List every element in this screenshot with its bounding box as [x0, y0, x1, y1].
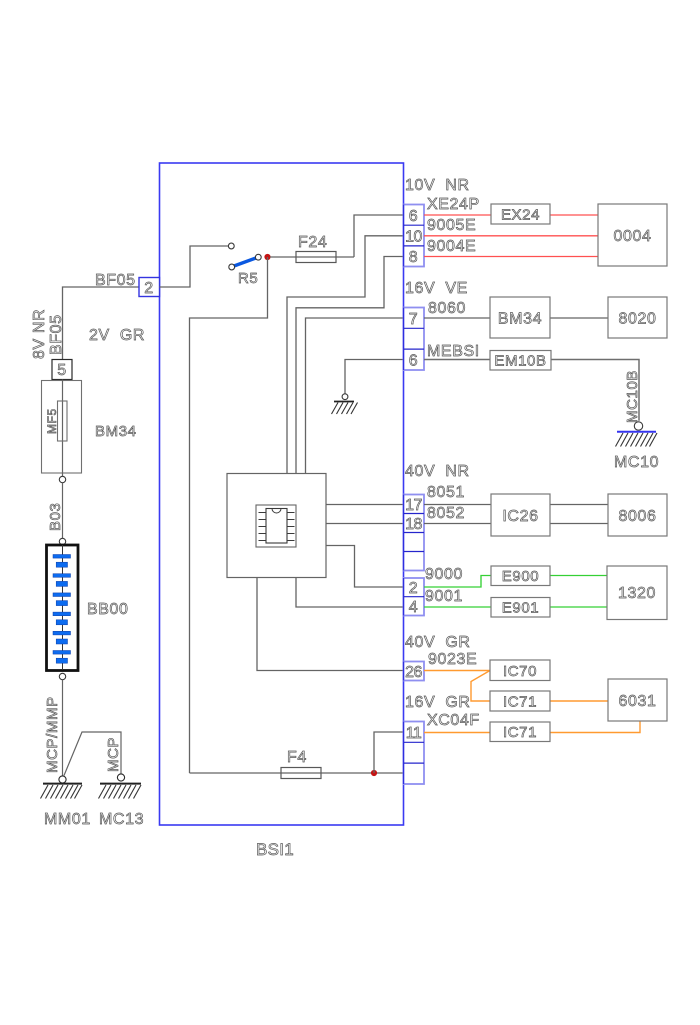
wire green E900 to 1320 [550, 575, 607, 577]
wire chip to pin 18 [326, 523, 405, 525]
svg-text:9023E: 9023E [428, 651, 477, 668]
wire chip to pin 2 (9000) [326, 546, 405, 588]
component 8020 [608, 297, 667, 338]
ground MC13 [99, 774, 142, 799]
wire F4 line [190, 772, 406, 774]
wire through BM34 [62, 380, 64, 477]
svg-text:7: 7 [409, 311, 419, 328]
wire R5 to F24 to pin 6 [270, 215, 405, 257]
wire pin17 to IC26 [424, 504, 491, 506]
svg-text:8052: 8052 [427, 505, 465, 522]
connector IC71 (lower) [490, 722, 550, 742]
svg-text:9005E: 9005E [427, 217, 476, 234]
wire pin2 to switch R5 [160, 246, 229, 287]
wire pin 7 to chip [306, 318, 406, 474]
label MCP (vertical) [105, 737, 122, 772]
connector EM10B [490, 351, 551, 371]
wire orange pin26 to IC70 and branch to IC71 [424, 671, 490, 702]
connector EX24 [491, 204, 550, 224]
wire BM34 to 8020 [550, 317, 608, 319]
svg-text:EX24: EX24 [501, 207, 540, 224]
wire MCP/MMP battery to ground [62, 680, 64, 776]
wire MCP branch to MC13 [64, 732, 121, 776]
svg-text:MC10B: MC10B [624, 370, 641, 423]
svg-text:8020: 8020 [619, 311, 657, 328]
ground MM01 [41, 776, 83, 799]
wire green pin4 to E901 [424, 606, 491, 608]
svg-text:IC71: IC71 [503, 694, 537, 711]
svg-text:6: 6 [409, 353, 419, 370]
connector IC70 [490, 660, 550, 681]
svg-text:2: 2 [409, 580, 419, 597]
svg-text:MF5: MF5 [45, 408, 59, 434]
svg-text:9004E: 9004E [427, 238, 476, 255]
component 0004 [598, 204, 667, 266]
svg-text:16V VE: 16V VE [405, 280, 468, 297]
svg-text:BM34: BM34 [95, 423, 137, 440]
wire junction to pin 11 [374, 732, 405, 773]
svg-text:E900: E900 [502, 568, 539, 585]
wire IC26 to 8006 (upper) [550, 504, 608, 506]
svg-text:XE24P: XE24P [427, 196, 480, 213]
wire red pin10 to 0004 [424, 235, 598, 237]
battery BB00 [47, 545, 79, 671]
svg-text:0004: 0004 [614, 228, 652, 245]
svg-text:40V NR: 40V NR [405, 463, 470, 480]
svg-text:F24: F24 [298, 234, 327, 251]
svg-text:8060: 8060 [428, 300, 466, 317]
connector E900 [491, 566, 550, 586]
wire pin 10 to chip [287, 236, 405, 474]
svg-text:4: 4 [409, 599, 419, 616]
wire green pin2 to E900 [424, 576, 491, 588]
pin strip 6/10/8 [404, 205, 425, 267]
svg-text:17: 17 [405, 497, 422, 514]
component 6031 [608, 679, 667, 721]
pin strip 17/18/empty/empty [404, 495, 425, 571]
connector node circle below battery [59, 673, 65, 679]
fuse F24 [296, 252, 336, 263]
svg-text:8051: 8051 [427, 484, 465, 501]
svg-text:MCP/MMP: MCP/MMP [44, 696, 61, 773]
svg-text:BSI1: BSI1 [256, 840, 294, 859]
svg-text:18: 18 [405, 516, 422, 533]
svg-text:EM10B: EM10B [494, 353, 546, 370]
wire pin18 to IC26 [424, 523, 491, 525]
svg-text:8V NR: 8V NR [31, 309, 48, 359]
pin 5 connector of BM34 [52, 360, 72, 380]
svg-text:11: 11 [406, 725, 422, 742]
svg-text:2: 2 [144, 280, 154, 297]
wire pin6 MEBSI to EM10B and MC10 [424, 360, 639, 421]
wire chip to pin 26 [257, 578, 405, 671]
pin 26 [404, 662, 425, 682]
wire red pin8 to 0004 [424, 256, 598, 258]
connector E901 [491, 598, 550, 618]
svg-text:10V NR: 10V NR [405, 177, 470, 194]
label MCP/MMP (vertical) [44, 696, 61, 773]
pin strip 7/-/6 [404, 308, 425, 371]
switch R5 [228, 243, 261, 270]
svg-text:16V GR: 16V GR [405, 694, 471, 711]
svg-text:MC10: MC10 [614, 454, 659, 471]
wire green E901 to 1320 [550, 606, 607, 608]
svg-text:6: 6 [409, 208, 419, 225]
svg-text:B03: B03 [47, 503, 64, 532]
svg-text:F4: F4 [287, 749, 307, 766]
svg-text:5: 5 [57, 362, 67, 379]
pin strip 11/empty/empty [404, 722, 425, 785]
svg-text:MEBSI: MEBSI [427, 343, 480, 360]
wire orange IC71 to 6031 [550, 700, 608, 702]
svg-text:8: 8 [409, 249, 419, 266]
wire red-dot branch down to F4 [190, 257, 268, 773]
svg-text:1320: 1320 [618, 585, 656, 602]
svg-text:10: 10 [405, 229, 422, 246]
svg-text:26: 26 [405, 664, 422, 681]
junction red dot on F4 line [371, 770, 377, 776]
microprocessor block inside BSI1 [227, 474, 326, 578]
wire chip to pin 4 (9001) [296, 578, 405, 608]
internal ground [332, 394, 358, 414]
svg-text:BM34: BM34 [498, 311, 542, 328]
fuse MF5 [58, 401, 68, 441]
label B03 (vertical) [47, 503, 64, 532]
svg-text:8006: 8006 [619, 508, 657, 525]
component BM34 [490, 297, 550, 338]
svg-text:2V GR: 2V GR [89, 327, 145, 344]
pin strip 2/4 [404, 578, 425, 616]
fuse box BM34 housing [42, 381, 82, 474]
label MC10B (vertical) [624, 370, 641, 423]
wire pin7 to BM34 relay [424, 317, 490, 319]
svg-text:E901: E901 [502, 600, 539, 617]
connector node circle above battery [59, 538, 65, 544]
wire BF05 from pin 2 to fuse 5 [63, 287, 140, 360]
label 8V NR (vertical) [31, 309, 48, 359]
connector IC71 (upper) [490, 691, 550, 711]
svg-text:9001: 9001 [425, 588, 463, 605]
label MF5 (vertical) [45, 408, 59, 434]
junction red dot after R5 [264, 254, 270, 260]
component IC26 [491, 494, 550, 536]
svg-text:XC04F: XC04F [427, 712, 480, 729]
wire pin 8 to chip [296, 257, 405, 474]
component 1320 [607, 566, 667, 620]
svg-text:IC71: IC71 [503, 724, 537, 741]
wire orange IC71 to 6031 bottom [550, 721, 640, 733]
svg-text:MCP: MCP [105, 737, 122, 772]
svg-text:9000: 9000 [425, 566, 463, 583]
pin 2 on BSI left edge [139, 278, 160, 298]
svg-text:MC13: MC13 [99, 811, 144, 828]
wire chip to pin 17 [326, 504, 405, 506]
svg-text:6031: 6031 [619, 693, 657, 710]
ground MC10 [616, 422, 658, 447]
wire red EX24 to 0004 [550, 214, 598, 216]
svg-text:BF05: BF05 [48, 314, 65, 355]
BSI1 control unit box [160, 163, 404, 825]
svg-text:40V GR: 40V GR [405, 634, 471, 651]
wire red pin6 to EX24 [424, 214, 491, 216]
svg-text:MM01: MM01 [44, 811, 91, 828]
wire IC26 to 8006 (lower) [550, 523, 608, 525]
svg-text:BB00: BB00 [87, 601, 129, 618]
fuse F4 [281, 768, 321, 779]
wire B03 [62, 483, 64, 539]
connector node circle below BM34 [59, 476, 65, 482]
component 8006 [608, 494, 667, 536]
wire pin 6 MEBSI to internal ground [345, 360, 405, 394]
wire orange pin11 to IC71 [424, 732, 490, 734]
svg-text:R5: R5 [238, 270, 258, 287]
svg-text:IC70: IC70 [503, 663, 537, 680]
label BF05 (vertical) [48, 314, 65, 355]
svg-text:IC26: IC26 [502, 508, 538, 525]
svg-text:BF05: BF05 [95, 272, 136, 289]
